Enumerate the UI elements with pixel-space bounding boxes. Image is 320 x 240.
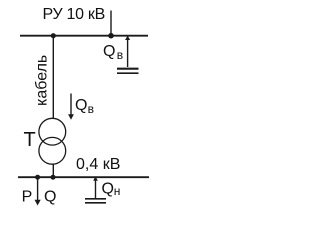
bus 0.4 kV	[18, 176, 149, 178]
bus 10 kV	[20, 35, 148, 37]
node: cable junction on 10kV bus	[51, 33, 56, 38]
capacitor: bank at 10kV bus	[117, 68, 139, 70]
svg-text:в: в	[117, 48, 123, 62]
svg-text:РУ 10 кВ: РУ 10 кВ	[43, 6, 105, 23]
arrow: Qв flow up into 10kV bus	[127, 39, 129, 67]
svg-text:Q: Q	[103, 43, 115, 60]
svg-text:Q: Q	[102, 181, 114, 198]
arrow: P,Q load flow down from 0.4kV bus	[37, 177, 39, 201]
capacitor: bank at 0.4kV bus	[85, 198, 106, 200]
svg-text:кабель: кабель	[34, 55, 51, 106]
node: feeder junction on 10kV bus	[108, 33, 114, 39]
wire: transformer secondary to 0.4kV bus	[52, 164, 54, 177]
arrow: Qв flow down cable into transformer	[70, 94, 72, 116]
svg-text:в: в	[88, 102, 94, 116]
node: load junction on 0.4kV bus	[35, 175, 40, 180]
svg-text:0,4 кВ: 0,4 кВ	[76, 156, 120, 173]
svg-text:Р: Р	[22, 189, 33, 206]
svg-text:Q: Q	[75, 97, 87, 114]
transformer T: secondary winding	[39, 137, 66, 164]
arrow: Qн flow up into 0.4kV bus	[95, 180, 97, 198]
node: transformer junction on 0.4kV bus	[51, 175, 56, 180]
transformer T: primary winding	[39, 118, 66, 145]
wire: supply feeder into 10kV bus	[110, 11, 112, 36]
svg-text:Q: Q	[44, 189, 56, 206]
svg-text:н: н	[114, 184, 121, 198]
svg-text:Т: Т	[24, 129, 36, 151]
wire: cable from 10kV bus to transformer	[52, 36, 54, 119]
